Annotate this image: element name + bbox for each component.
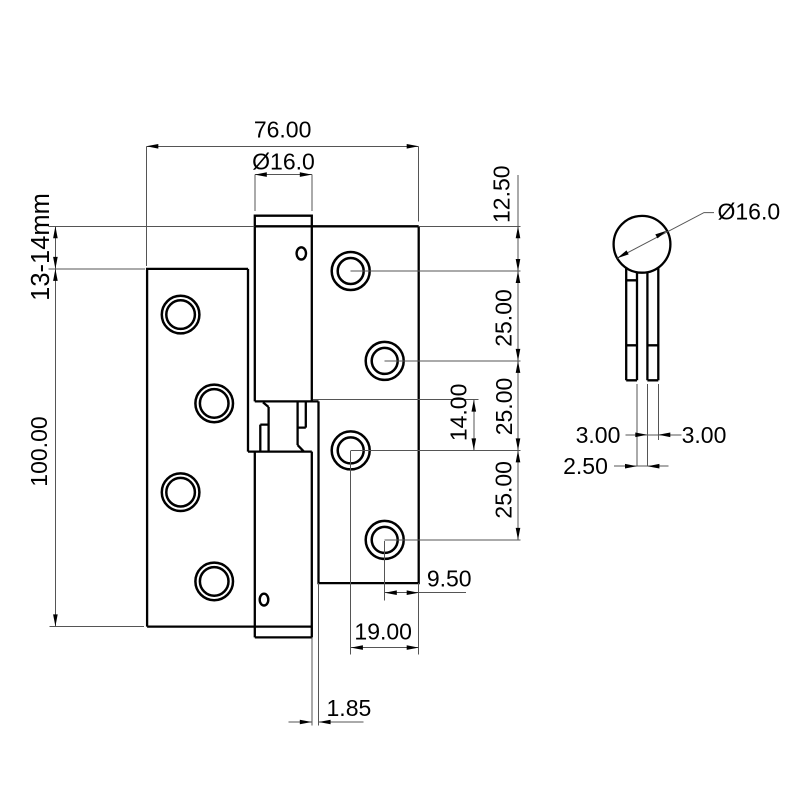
svg-text:25.00: 25.00 (491, 289, 517, 347)
diameter arrow lower-left (617, 250, 629, 258)
dimension 76.00 (146, 146, 418, 266)
right leaf outline (319, 226, 419, 583)
svg-text:25.00: 25.00 (490, 461, 516, 519)
top edge line (cap bottom + right leaf top edge) (255, 225, 419, 227)
pin left edge (267, 407, 269, 452)
screw hole R1 (332, 252, 370, 290)
svg-text:3.00: 3.00 (682, 422, 727, 448)
dimension 25.00 (third) arrows (516, 450, 521, 462)
dimension 100.00 arrows (53, 269, 58, 281)
svg-text:76.00: 76.00 (254, 117, 312, 143)
svg-text:9.50: 9.50 (427, 566, 472, 592)
svg-text:14.00: 14.00 (445, 384, 471, 442)
pin dimple mark bottom (260, 594, 269, 606)
knuckle bottom cap (255, 636, 312, 638)
dimension 19.00 (351, 451, 419, 655)
svg-text:1.85: 1.85 (327, 695, 372, 721)
diameter arrow upper-right (655, 231, 667, 239)
dimension 12.50 arrows (516, 226, 521, 238)
detail dimension extension lines (637, 384, 658, 467)
svg-text:2.50: 2.50 (563, 453, 608, 479)
pin dimple mark top (297, 247, 306, 259)
svg-text:Ø16.0: Ø16.0 (718, 199, 781, 225)
svg-text:Ø16.0: Ø16.0 (252, 148, 315, 174)
screw hole R3 (332, 431, 370, 469)
screw hole R4 (366, 521, 404, 559)
dimension 9.50 (385, 541, 466, 655)
dimension 2.50 (614, 465, 669, 467)
screw hole L1 (162, 296, 200, 334)
dimension 14.00 (313, 400, 479, 451)
bottom edge line (leaf bottom + cap top) (147, 625, 312, 627)
pin chamfer bottom-right (298, 445, 304, 452)
knuckle top cap (255, 216, 312, 227)
detail view: pin head circle (614, 216, 671, 273)
detail view: pin legs (626, 260, 658, 380)
upper knuckle barrel (255, 226, 319, 401)
dimension 13-14mm arrows (53, 226, 58, 238)
svg-text:25.00: 25.00 (491, 378, 517, 436)
pin right edge (296, 401, 298, 445)
dimension 1.85 (289, 583, 364, 725)
left leaf outline (147, 269, 248, 627)
dimension 25.00 (second) arrows (516, 361, 521, 373)
pin right slot (298, 401, 306, 427)
left dimension extension lines (49, 226, 254, 626)
pin left step (260, 425, 268, 452)
detail diameter leader line (617, 213, 714, 259)
svg-text:100.00: 100.00 (26, 416, 52, 486)
screw hole L3 (162, 473, 200, 511)
lower knuckle barrel (248, 452, 312, 638)
screw hole R2 (366, 342, 404, 380)
svg-text:3.00: 3.00 (576, 422, 621, 448)
dimension 3.00 left (626, 434, 682, 436)
svg-text:19.00: 19.00 (354, 619, 412, 645)
right dimension chain extension lines (351, 175, 521, 540)
screw hole L4 (195, 563, 233, 601)
screw hole L2 (195, 385, 233, 423)
pin chamfer top-left (263, 402, 269, 407)
svg-text:13-14mm: 13-14mm (27, 193, 55, 301)
dimension Ø16.0 (pin diameter, main view) (255, 175, 312, 211)
svg-text:12.50: 12.50 (489, 165, 515, 223)
dimension 25.00 (first) arrows (516, 271, 521, 283)
